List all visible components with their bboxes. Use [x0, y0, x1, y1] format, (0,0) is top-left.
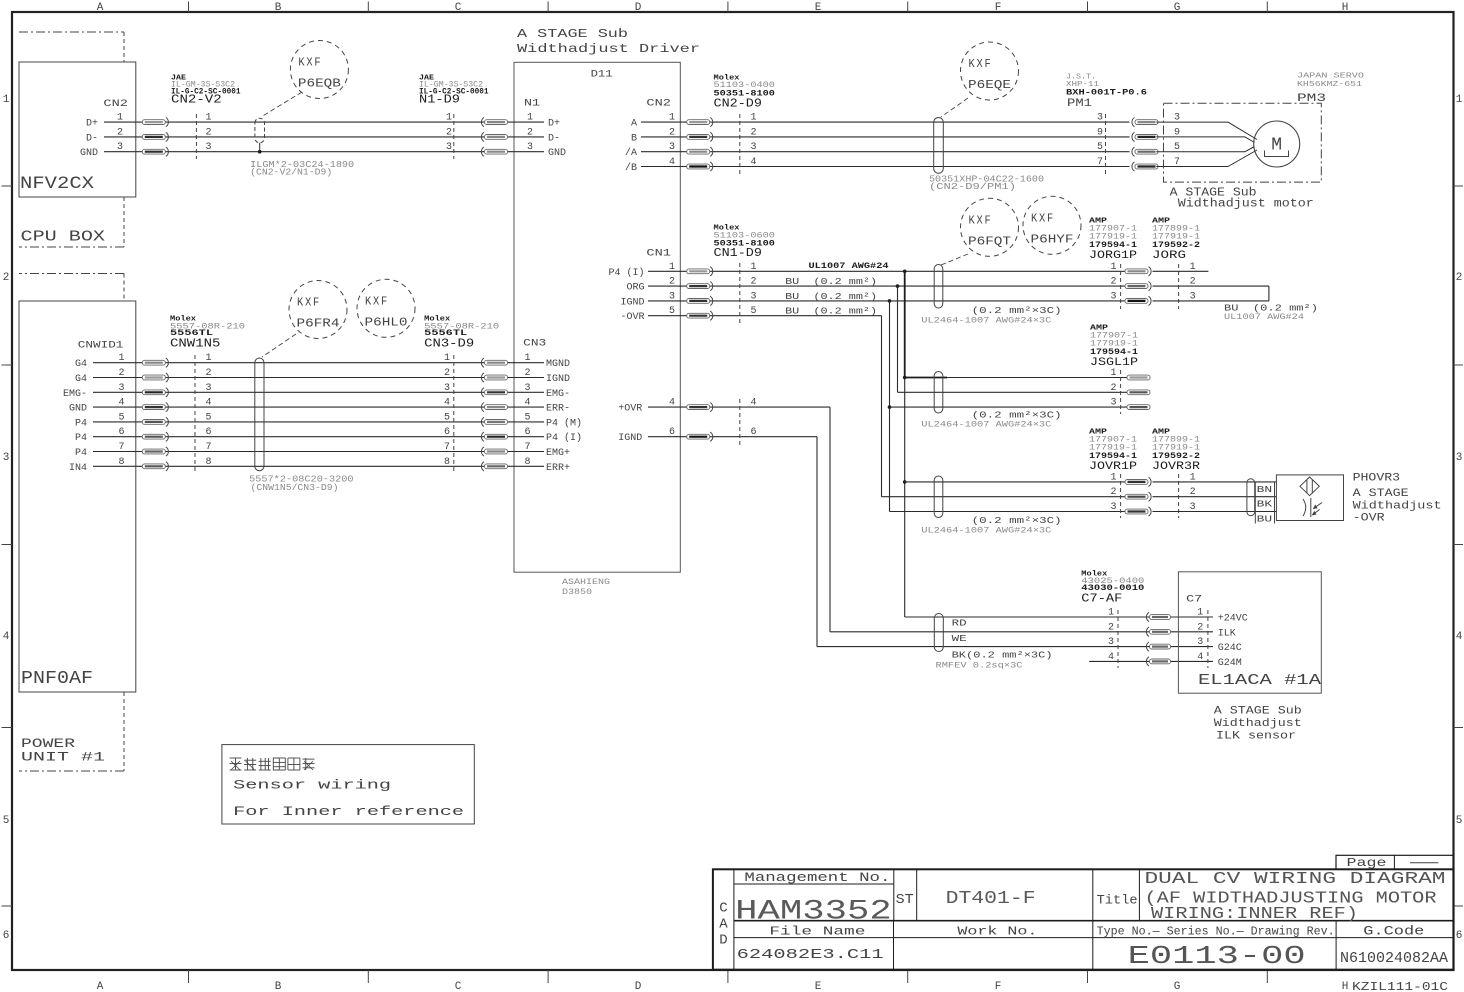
- svg-text:KH56KMZ-651: KH56KMZ-651: [1297, 81, 1363, 89]
- svg-text:CNWID1: CNWID1: [78, 340, 124, 352]
- PNF0AF unit box: [19, 301, 136, 692]
- svg-text:CN3: CN3: [523, 339, 546, 350]
- cable marker W-JOVR (oval): [934, 476, 943, 517]
- svg-text:8: 8: [206, 457, 212, 468]
- connector C7-AF label stack (Molex 43030-0010): [1081, 571, 1144, 606]
- svg-text:UL2464-1007 AWG#24×3C: UL2464-1007 AWG#24×3C: [921, 317, 1051, 326]
- svg-text:2: 2: [3, 272, 10, 284]
- svg-text:(0.2 mm²×3C): (0.2 mm²×3C): [972, 306, 1062, 316]
- svg-text:B: B: [275, 981, 282, 992]
- svg-text:1: 1: [751, 113, 757, 124]
- motor M symbol: [1254, 121, 1300, 167]
- svg-text:F: F: [995, 981, 1002, 992]
- wire color labels RD WE BK + cable spec RMFEV: [936, 619, 1053, 671]
- wire leads into motor: [1156, 122, 1257, 166]
- svg-text:EMG-: EMG-: [63, 389, 87, 400]
- svg-text:4: 4: [1108, 652, 1114, 663]
- svg-text:3: 3: [524, 383, 530, 394]
- svg-text:P6EQE: P6EQE: [968, 78, 1011, 92]
- connector N1-D9 terminals: [446, 113, 508, 159]
- svg-text:P6EQB: P6EQB: [298, 77, 341, 91]
- photo sensor PHOVR3 box: [1276, 475, 1343, 521]
- svg-text:-OVR: -OVR: [620, 312, 644, 323]
- svg-text:DT401-F: DT401-F: [946, 889, 1036, 909]
- connector CN3 on driver D11 (pins 1-8): [523, 339, 582, 474]
- svg-text:CN2-D9: CN2-D9: [714, 97, 762, 111]
- harness code circle KXF P6HL0: [357, 279, 415, 337]
- svg-text:3: 3: [3, 452, 10, 464]
- svg-text:Widthadjust: Widthadjust: [1353, 501, 1442, 513]
- connector PM1 label stack (J.S.T. BXH-001T-P0.6): [1066, 74, 1147, 111]
- svg-text:P4: P4: [75, 433, 87, 444]
- svg-text:UL1007 AWG#24: UL1007 AWG#24: [1224, 313, 1304, 322]
- POWER UNIT #1 enclosure (dash-dot): [19, 274, 124, 772]
- svg-text:2: 2: [206, 127, 212, 138]
- svg-text:1: 1: [1110, 262, 1116, 273]
- svg-text:MGND: MGND: [546, 359, 570, 370]
- svg-text:PNF0AF: PNF0AF: [21, 669, 93, 689]
- svg-text:1: 1: [1108, 608, 1114, 619]
- svg-text:P6HL0: P6HL0: [365, 315, 408, 329]
- svg-text:1: 1: [1456, 94, 1463, 106]
- harness code circle KXF P6EQE: [961, 42, 1019, 100]
- wire G24M stub to C7-4: [1089, 660, 1213, 662]
- svg-text:3: 3: [1108, 637, 1114, 648]
- svg-text:6: 6: [444, 427, 450, 438]
- svg-text:179594-1: 179594-1: [1089, 451, 1137, 461]
- node ORG drop to JSGL1P-2: [896, 284, 1127, 392]
- svg-text:CN3-D9: CN3-D9: [424, 336, 474, 350]
- svg-text:4: 4: [751, 398, 757, 409]
- svg-text:D-: D-: [86, 133, 98, 144]
- svg-text:1: 1: [1110, 368, 1116, 379]
- cable spec (0.2 mm2x3C) UL2464-1007 AWG#24x3C for JORG: [921, 306, 1061, 325]
- svg-text:P6FR4: P6FR4: [297, 317, 340, 331]
- wire ORG run CN1-2 to JORG1P-2: [648, 285, 1125, 287]
- svg-text:BU (0.2 mm²): BU (0.2 mm²): [785, 277, 877, 287]
- svg-text:KXF: KXF: [365, 295, 389, 308]
- cable marker W-JORG (oval): [934, 265, 943, 308]
- svg-text:JORG1P: JORG1P: [1089, 250, 1137, 262]
- svg-text:B: B: [631, 133, 637, 144]
- svg-text:3: 3: [1197, 637, 1203, 648]
- connector JORG label stack (AMP 179592-2): [1152, 218, 1200, 263]
- svg-text:Work No.: Work No.: [957, 925, 1037, 939]
- svg-text:(CN2-D9/PM1): (CN2-D9/PM1): [929, 182, 1016, 192]
- svg-text:KZIL111-01C: KZIL111-01C: [1352, 980, 1448, 992]
- svg-text:5: 5: [1456, 815, 1463, 827]
- driver unit D11 box (A STAGE Sub Widthadjust Driver): [514, 27, 700, 572]
- svg-text:5: 5: [3, 815, 10, 827]
- svg-text:UL1007 AWG#24: UL1007 AWG#24: [809, 261, 889, 271]
- harness code circle KXF P6HYF: [1023, 196, 1081, 254]
- svg-text:4: 4: [1456, 631, 1463, 643]
- wire IGND run CN1-6 to C7-3 (WE): [648, 437, 1146, 647]
- connector CN2-V2 terminals (JAE): [142, 113, 211, 159]
- svg-text:KXF: KXF: [298, 57, 322, 70]
- svg-text:ORG: ORG: [626, 283, 644, 294]
- svg-text:D: D: [719, 933, 727, 949]
- svg-text:BK: BK: [1257, 500, 1273, 510]
- svg-text:PHOVR3: PHOVR3: [1353, 473, 1401, 485]
- caption A STAGE Sub Widthadjust ILK sensor: [1214, 706, 1302, 743]
- svg-text:A STAGE Sub: A STAGE Sub: [1214, 706, 1302, 718]
- svg-text:KXF: KXF: [969, 58, 993, 71]
- svg-text:ERR-: ERR-: [546, 404, 570, 415]
- svg-text:2: 2: [527, 127, 533, 138]
- svg-text:Type No.— Series No.— Drawing: Type No.— Series No.— Drawing Rev.: [1097, 926, 1335, 939]
- svg-text:624082E3.C11: 624082E3.C11: [737, 947, 884, 963]
- svg-text:5: 5: [751, 306, 757, 317]
- NFV2CX unit box: [19, 62, 136, 197]
- connector PM1 terminals (pins 3 9 5 7): [1097, 113, 1158, 174]
- svg-text:D+: D+: [86, 119, 98, 130]
- svg-text:3: 3: [1110, 291, 1116, 302]
- svg-text:Widthadjust Driver: Widthadjust Driver: [517, 42, 700, 56]
- svg-text:CN1-D9: CN1-D9: [714, 246, 762, 260]
- connector N1 on driver D11 (pins 1-3): [524, 99, 566, 160]
- svg-text:2: 2: [1110, 277, 1116, 288]
- svg-text:File Name: File Name: [769, 925, 865, 939]
- svg-text:D+: D+: [548, 119, 560, 130]
- connector JOVR1P terminals: [1110, 472, 1151, 518]
- joint JSGL1P label stack (AMP 179594-1): [1090, 325, 1138, 370]
- connector JORG pins and loop-back jumper: [1153, 262, 1269, 309]
- svg-text:(CNW1N5/CN3-D9): (CNW1N5/CN3-D9): [251, 483, 339, 493]
- svg-text:P6FQT: P6FQT: [968, 234, 1011, 248]
- connector CN2 on driver D11 (pins 1-4: A B /A /B): [625, 99, 675, 175]
- driver maker label ASAHIENG D3850: [562, 578, 610, 597]
- connector CN1-D9 label stack (Molex 50351-8100): [714, 225, 776, 261]
- svg-text:2: 2: [206, 368, 212, 379]
- connector CN2-D9 terminals (Molex): [687, 113, 757, 174]
- svg-text:2: 2: [1456, 272, 1463, 284]
- svg-text:C: C: [455, 2, 462, 14]
- svg-text:JOVR1P: JOVR1P: [1089, 461, 1137, 473]
- svg-text:+24VC: +24VC: [1218, 614, 1248, 625]
- motor caption A STAGE Sub Widthadjust motor: [1170, 187, 1314, 211]
- svg-text:8: 8: [524, 457, 530, 468]
- svg-text:6: 6: [206, 427, 212, 438]
- cable spec for JSGL: [921, 410, 1061, 429]
- svg-text:CNW1N5: CNW1N5: [170, 336, 220, 350]
- svg-text:Page: Page: [1347, 856, 1387, 870]
- svg-text:BU (0.2 mm²): BU (0.2 mm²): [785, 307, 877, 317]
- svg-text:2: 2: [1197, 622, 1203, 633]
- svg-text:E0113-00: E0113-00: [1128, 941, 1306, 971]
- svg-text:D11: D11: [591, 69, 613, 81]
- svg-text:3: 3: [1097, 113, 1103, 124]
- svg-text:EMG-: EMG-: [546, 389, 570, 400]
- svg-text:P4 (M): P4 (M): [546, 417, 582, 429]
- svg-text:Management No.: Management No.: [744, 871, 890, 885]
- svg-text:For Inner reference: For Inner reference: [233, 804, 464, 819]
- connector C7-AF terminals: [1108, 608, 1171, 669]
- svg-text:UL2464-1007 AWG#24×3C: UL2464-1007 AWG#24×3C: [921, 421, 1051, 430]
- svg-text:2: 2: [1110, 487, 1116, 498]
- svg-text:KXF: KXF: [1031, 212, 1055, 225]
- svg-text:D: D: [635, 2, 642, 14]
- leader from P6EQE: [941, 98, 968, 117]
- svg-text:4: 4: [1197, 652, 1203, 663]
- connector CN3-D9 label stack (Molex 5556TL): [424, 315, 499, 350]
- svg-text:BK(0.2 mm²×3C): BK(0.2 mm²×3C): [952, 651, 1053, 661]
- cable part number 5557*2-08C20-3200 (CNW1N5/CN3-D9): [249, 475, 354, 494]
- svg-text:ILK sensor: ILK sensor: [1216, 731, 1296, 743]
- harness code circle KXF P6FQT: [961, 198, 1019, 256]
- svg-text:E: E: [815, 2, 822, 14]
- svg-text:6: 6: [524, 427, 530, 438]
- svg-text:4: 4: [3, 631, 10, 643]
- motor PM3 dash-dot enclosure: [1164, 73, 1365, 183]
- wire -OVR run CN1-5 to JOVR1P-2: [648, 316, 1125, 497]
- svg-text:1: 1: [206, 113, 212, 124]
- svg-text:P4 (I): P4 (I): [608, 267, 644, 279]
- cable marker W-CNW (oval): [255, 358, 264, 471]
- svg-text:5: 5: [206, 412, 212, 423]
- svg-text:HAM3352: HAM3352: [735, 897, 892, 928]
- svg-text:JORG: JORG: [1152, 250, 1186, 262]
- cable marker W-CN2 (dashed oval + stem): [255, 118, 265, 153]
- svg-text:G4: G4: [75, 374, 87, 385]
- svg-text:/B: /B: [625, 162, 637, 174]
- svg-text:PM1: PM1: [1067, 98, 1092, 110]
- svg-text:3: 3: [527, 142, 533, 153]
- wire D+ / D- / GND runs CN2 to N1: [104, 122, 544, 152]
- cable marker W-C7 (oval): [934, 614, 943, 652]
- svg-text:CN2-V2: CN2-V2: [171, 93, 222, 107]
- connector JORG1P terminals: [1110, 262, 1151, 309]
- wire runs CNWID1 to CN3 (8 conductors): [93, 363, 544, 467]
- svg-text:D-: D-: [548, 133, 560, 144]
- wire JSGL1P-1 from P4 rail: [905, 377, 947, 379]
- cable marker W-JSGL (oval): [934, 372, 943, 413]
- note box: sensor wiring for inner reference: [222, 745, 474, 824]
- svg-text:D3850: D3850: [562, 588, 592, 597]
- svg-text:IN4: IN4: [69, 463, 87, 474]
- svg-text:/A: /A: [625, 147, 637, 159]
- connector JOVR1P label stack (AMP 179594-1): [1089, 429, 1137, 474]
- svg-text:P6HYF: P6HYF: [1031, 232, 1074, 246]
- jumper wire spec BU (0.2 mm2) UL1007 AWG#24: [1224, 304, 1318, 322]
- svg-text:WIRING:INNER REF): WIRING:INNER REF): [1151, 904, 1358, 923]
- svg-text:179592-2: 179592-2: [1152, 240, 1200, 250]
- svg-text:GND: GND: [80, 148, 98, 159]
- svg-text:4: 4: [751, 157, 757, 168]
- svg-text:A: A: [719, 917, 728, 933]
- svg-text:2: 2: [446, 127, 452, 138]
- svg-text:EL1ACA #1A: EL1ACA #1A: [1198, 673, 1321, 689]
- connector CN1-D9 terminals: [687, 262, 757, 445]
- svg-text:2: 2: [444, 368, 450, 379]
- svg-text:179592-2: 179592-2: [1152, 451, 1200, 461]
- svg-text:G24C: G24C: [1218, 643, 1242, 654]
- unit EL1ACA #1A box with connector C7: [1178, 572, 1321, 693]
- svg-text:M: M: [1271, 136, 1282, 156]
- svg-text:8: 8: [444, 457, 450, 468]
- svg-text:2: 2: [1108, 622, 1114, 633]
- svg-text:Sensor wiring: Sensor wiring: [233, 778, 391, 793]
- wire JSGL1P-3 from IGND rail: [890, 406, 1128, 408]
- cable part number ILGM*2-03C24-1890 (CN2-V2/N1-D9): [250, 160, 354, 178]
- svg-text:(0.2 mm²×3C): (0.2 mm²×3C): [972, 410, 1062, 420]
- svg-text:ERR+: ERR+: [546, 463, 570, 474]
- cable marker W-PM (oval): [934, 118, 944, 174]
- svg-text:BU (0.2 mm²): BU (0.2 mm²): [785, 292, 877, 302]
- sensor caption PHOVR3 A STAGE Widthadjust -OVR: [1353, 473, 1442, 525]
- connector CN1 on driver D11 (pins 1,2,3,5 and 4,6): [608, 249, 675, 445]
- joint JSGL1P terminals: [1110, 368, 1150, 414]
- connector CNW1N5 label stack (Molex 5556TL): [170, 315, 245, 350]
- cable marker sensor pigtail (oval): [1247, 479, 1255, 516]
- svg-text:179594-1: 179594-1: [1089, 240, 1137, 250]
- harness code circle KXF P6FR4: [289, 281, 347, 339]
- svg-text:F: F: [995, 2, 1002, 14]
- svg-text:BXH-001T-P0.6: BXH-001T-P0.6: [1066, 87, 1147, 97]
- svg-text:4: 4: [524, 398, 530, 409]
- svg-text:4: 4: [444, 398, 450, 409]
- svg-text:Widthadjust motor: Widthadjust motor: [1178, 198, 1314, 211]
- svg-text:CPU BOX: CPU BOX: [21, 229, 106, 246]
- svg-text:7: 7: [1097, 157, 1103, 168]
- svg-text:UNIT #1: UNIT #1: [21, 751, 105, 765]
- svg-text:CN2: CN2: [103, 99, 128, 110]
- wire IGND run CN1-3 to JORG1P-3: [648, 300, 1125, 302]
- cable spec for JOVR: [921, 516, 1061, 535]
- svg-text:IGND: IGND: [618, 433, 642, 444]
- svg-text:D: D: [635, 981, 642, 992]
- svg-text:-OVR: -OVR: [1353, 513, 1385, 525]
- wire spec UL1007 AWG#24 / BU (0.2 mm2): [785, 261, 888, 317]
- svg-text:A STAGE Sub: A STAGE Sub: [517, 27, 628, 41]
- svg-text:6: 6: [1456, 930, 1463, 942]
- svg-text:GND: GND: [548, 148, 566, 159]
- svg-text:ASAHIENG: ASAHIENG: [562, 578, 610, 587]
- wire runs into EL1ACA (rows 1-3 continue): [1146, 617, 1213, 647]
- svg-text:1: 1: [527, 113, 533, 124]
- connector CNW1N5 terminals (Molex): [142, 353, 211, 474]
- svg-text:1: 1: [446, 113, 452, 124]
- motor PM3 pins 3 9 5 7: [1174, 113, 1180, 168]
- svg-text:3: 3: [444, 383, 450, 394]
- svg-text:6: 6: [751, 427, 757, 438]
- svg-text:UL2464-1007 AWG#24×3C: UL2464-1007 AWG#24×3C: [921, 526, 1051, 535]
- svg-text:7: 7: [444, 442, 450, 453]
- svg-text:3: 3: [751, 291, 757, 302]
- wire JOVR1P-1 from P4 rail: [905, 481, 1125, 483]
- svg-text:KXF: KXF: [297, 297, 321, 310]
- svg-text:IGND: IGND: [546, 374, 570, 385]
- svg-text:RD: RD: [952, 619, 967, 629]
- connector N1-D9 label stack (JAE): [419, 75, 489, 107]
- svg-text:CN2: CN2: [646, 99, 671, 110]
- leader from P6FR4: [262, 334, 296, 357]
- cable part number 50351XHP-04C22-1600 (CN2-D9/PM1): [929, 175, 1044, 193]
- svg-text:5: 5: [1097, 142, 1103, 153]
- svg-text:JAPAN SERVO: JAPAN SERVO: [1297, 73, 1365, 81]
- svg-text:2: 2: [524, 368, 530, 379]
- svg-text:H: H: [1342, 2, 1349, 14]
- svg-text:2: 2: [1110, 383, 1116, 394]
- svg-text:A: A: [97, 2, 104, 14]
- svg-text:1: 1: [1197, 608, 1203, 619]
- svg-text:G: G: [1174, 2, 1181, 14]
- svg-text:BU: BU: [1257, 515, 1273, 525]
- svg-text:A STAGE: A STAGE: [1353, 488, 1409, 500]
- svg-text:N610024082AA: N610024082AA: [1340, 951, 1448, 967]
- connector JORG1P label stack (AMP 179594-1): [1089, 218, 1137, 263]
- svg-text:BN: BN: [1257, 485, 1273, 495]
- svg-text:7: 7: [524, 442, 530, 453]
- svg-text:2: 2: [751, 127, 757, 138]
- wire color tags BN BK BU: [1255, 482, 1274, 525]
- connector CN3-D9 terminals: [444, 353, 508, 474]
- svg-text:2: 2: [751, 277, 757, 288]
- connector CN2-D9 label stack (Molex 50351-8100): [714, 75, 776, 111]
- leader to cable marker from P6EQB: [261, 92, 302, 117]
- svg-text:1: 1: [751, 262, 757, 273]
- connector JOVR3R pins and wires to sensor: [1153, 472, 1277, 518]
- svg-text:C7-AF: C7-AF: [1081, 592, 1122, 606]
- svg-text:B: B: [275, 2, 282, 14]
- svg-text:3: 3: [1110, 398, 1116, 409]
- connector CN2 on NFV2CX (pins 1-3: D+ D- GND): [80, 99, 128, 159]
- svg-text:9: 9: [1097, 127, 1103, 138]
- svg-text:JOVR3R: JOVR3R: [1152, 461, 1200, 473]
- svg-text:GND: GND: [69, 404, 87, 415]
- node IGND rail drops: [888, 299, 1125, 511]
- svg-text:1: 1: [1110, 472, 1116, 483]
- svg-text:N1-D9: N1-D9: [419, 93, 460, 107]
- svg-text:1: 1: [3, 94, 10, 106]
- svg-text:3: 3: [1456, 452, 1463, 464]
- svg-text:3: 3: [446, 142, 452, 153]
- svg-text:C: C: [455, 981, 462, 992]
- svg-text:PM3: PM3: [1297, 93, 1326, 105]
- svg-text:RMFEV 0.2sq×3C: RMFEV 0.2sq×3C: [936, 662, 1023, 671]
- svg-text:+OVR: +OVR: [618, 404, 642, 415]
- svg-text:G: G: [1174, 981, 1181, 992]
- svg-text:4: 4: [206, 398, 212, 409]
- svg-text:3: 3: [751, 142, 757, 153]
- svg-text:G.Code: G.Code: [1363, 925, 1424, 939]
- svg-text:A: A: [97, 981, 104, 992]
- svg-text:(CN2-V2/N1-D9): (CN2-V2/N1-D9): [250, 168, 332, 178]
- svg-text:3: 3: [206, 383, 212, 394]
- svg-text:1: 1: [206, 353, 212, 364]
- svg-text:5: 5: [524, 412, 530, 423]
- svg-text:3: 3: [206, 142, 212, 153]
- svg-text:7: 7: [206, 442, 212, 453]
- harness code circle KXF P6EQB: [290, 41, 348, 99]
- svg-text:CN1: CN1: [646, 249, 671, 260]
- svg-text:G24M: G24M: [1218, 658, 1242, 669]
- connector CNWID1 on PNF0AF (pins 1-8): [63, 340, 125, 474]
- wire +OVR run CN1-4 to C7-2 (RD): [648, 407, 1146, 632]
- svg-text:KXF: KXF: [969, 214, 993, 227]
- svg-text:P4: P4: [75, 418, 87, 429]
- svg-text:WE: WE: [952, 634, 967, 644]
- svg-text:NFV2CX: NFV2CX: [20, 174, 95, 194]
- svg-text:G4: G4: [75, 359, 87, 370]
- svg-text:1: 1: [524, 353, 530, 364]
- svg-text:POWER: POWER: [21, 737, 76, 751]
- svg-text:EMG+: EMG+: [546, 448, 570, 459]
- svg-text:C7: C7: [1186, 595, 1202, 606]
- svg-text:1: 1: [444, 353, 450, 364]
- svg-text:Widthadjust: Widthadjust: [1214, 718, 1302, 730]
- svg-text:P4: P4: [75, 448, 87, 459]
